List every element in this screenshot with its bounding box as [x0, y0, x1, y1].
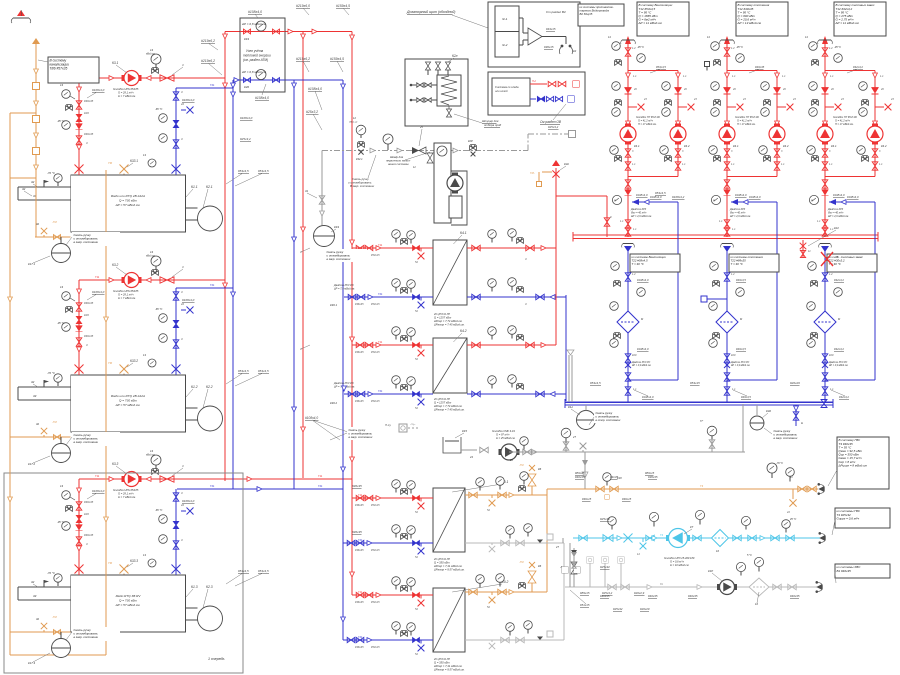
svg-text:-95 °С: -95 °С: [57, 520, 65, 524]
svg-text:Н = 7 мВод.см.: Н = 7 мВод.см.: [118, 495, 136, 499]
svg-text:Н = 17 мВод.см.: Н = 17 мВод.см.: [638, 123, 657, 126]
svg-text:ΔР = 2,9 мВод.см.: ΔР = 2,9 мВод.см.: [828, 364, 849, 367]
svg-text:3: 3: [86, 542, 88, 546]
svg-text:3: 3: [86, 141, 88, 145]
svg-text:#108х4,0: #108х4,0: [240, 116, 253, 120]
svg-text:в откр. состоянии: в откр. состоянии: [596, 418, 621, 422]
svg-text:1.2: 1.2: [731, 273, 735, 276]
svg-text:23: 23: [643, 98, 647, 101]
svg-text:32: 32: [36, 222, 40, 226]
svg-text:32: 32: [31, 180, 35, 184]
svg-text:#53х15: #53х15: [371, 302, 380, 306]
svg-text:20: 20: [732, 88, 736, 91]
svg-text:Т11: Т11: [95, 275, 100, 279]
svg-text:1.2: 1.2: [829, 273, 833, 276]
svg-text:#108х4,0: #108х4,0: [847, 195, 859, 199]
svg-text:1.2: 1.2: [632, 46, 636, 50]
svg-text:#40х35: #40х35: [790, 594, 800, 598]
svg-text:в закр. состоянии: в закр. состоянии: [74, 635, 99, 639]
svg-text:#20х29: #20х29: [640, 607, 650, 611]
svg-text:Т3: Т3: [700, 484, 704, 488]
svg-text:#43х15: #43х15: [546, 27, 556, 31]
svg-text:М: М: [614, 200, 616, 202]
svg-text:Gцирк = 0,6 м³/ч: Gцирк = 0,6 м³/ч: [837, 516, 860, 520]
svg-text:Riello или RTQ 2B 2A2A: Riello или RTQ 2B 2A2A: [111, 394, 145, 398]
svg-text:1 очередь: 1 очередь: [208, 657, 225, 661]
svg-text:отбора проб: отбора проб: [484, 123, 502, 127]
svg-text:К32: К32: [766, 409, 771, 413]
svg-text:ДанFoss РСУ-РС: ДанFoss РСУ-РС: [730, 362, 750, 364]
svg-text:#108х4,0: #108х4,0: [637, 347, 649, 351]
svg-text:#49х35: #49х35: [755, 65, 765, 69]
svg-text:2С-(РЗ-%-7Р: 2С-(РЗ-%-7Р: [433, 312, 450, 316]
svg-text:-95 °С: -95 °С: [57, 119, 65, 123]
svg-text:13: 13: [143, 353, 146, 357]
svg-text:52: 52: [415, 357, 418, 361]
svg-text:#53х15: #53х15: [371, 350, 380, 354]
svg-text:22: 22: [180, 102, 185, 106]
svg-text:14: 14: [707, 36, 710, 39]
svg-text:#108х4,0: #108х4,0: [92, 88, 105, 92]
svg-text:#108х4,0: #108х4,0: [182, 499, 195, 503]
svg-text:#53х15: #53х15: [371, 548, 380, 552]
svg-text:#25х3,2: #25х3,2: [240, 137, 251, 141]
svg-text:К1Р: К1Р: [708, 569, 713, 573]
svg-text:#32х3,2: #32х3,2: [834, 278, 844, 282]
svg-text:-95 °С: -95 °С: [736, 46, 743, 49]
svg-text:3: 3: [181, 491, 183, 495]
svg-text:#36х35: #36х35: [355, 350, 364, 354]
svg-text:нВод.см: нВод.см: [146, 53, 155, 56]
svg-text:3: 3: [181, 337, 183, 341]
svg-text:14: 14: [805, 36, 808, 39]
svg-text:Q = 730 кВт: Q = 730 кВт: [119, 399, 137, 403]
svg-text:Узел учёта: Узел учёта: [246, 49, 263, 53]
svg-text:23: 23: [792, 98, 796, 101]
svg-text:1.1: 1.1: [879, 163, 883, 166]
svg-text:#25х32: #25х32: [600, 565, 610, 569]
svg-text:М: М: [713, 200, 715, 202]
svg-text:К1.2: К1.2: [191, 385, 198, 389]
svg-text:33: 33: [33, 394, 37, 398]
svg-text:#53х4,5: #53х4,5: [238, 369, 249, 373]
svg-text:ТМ-: ТМ-: [530, 171, 535, 175]
svg-text:ΔР = 13 мВод.см: ΔР = 13 мВод.см: [737, 21, 761, 25]
svg-text:23: 23: [693, 98, 697, 101]
svg-text:К: К: [610, 215, 612, 219]
svg-text:#53х4,5: #53х4,5: [656, 65, 666, 69]
svg-text:3: 3: [879, 150, 881, 153]
svg-text:В1: В1: [660, 582, 664, 586]
svg-text:К19: К19: [334, 225, 339, 229]
svg-text:#25х32: #25х32: [613, 607, 623, 611]
svg-text:К2.3: К2.3: [206, 585, 213, 589]
svg-text:3: 3: [181, 290, 183, 294]
svg-text:1.1: 1.1: [731, 163, 735, 166]
svg-text:#36х35: #36х35: [648, 475, 658, 479]
svg-text:13: 13: [150, 250, 154, 254]
svg-text:К4.2: К4.2: [684, 144, 690, 148]
svg-text:К3л: К3л: [564, 162, 569, 166]
svg-text:ДанFoss РСУ-РС: ДанFoss РСУ-РС: [631, 362, 651, 364]
svg-text:20: 20: [633, 88, 637, 91]
svg-text:Ст раздел В4: Ст раздел В4: [546, 10, 566, 14]
svg-text:#36х35: #36х35: [355, 503, 364, 507]
svg-text:Т11: Т11: [358, 493, 363, 497]
svg-text:1.1: 1.1: [620, 220, 624, 223]
svg-text:Н = 17 мВод.см.: Н = 17 мВод.см.: [737, 123, 756, 126]
svg-text:#40х35: #40х35: [600, 594, 610, 598]
svg-text:#108х4,0: #108х4,0: [308, 87, 322, 91]
svg-text:-65 °С: -65 °С: [155, 307, 163, 311]
svg-text:в закр. состоянии: в закр. состоянии: [349, 435, 373, 439]
svg-text:Q = 350 кВт: Q = 350 кВт: [434, 561, 450, 565]
svg-text:#108х4,0: #108х4,0: [642, 395, 654, 399]
svg-text:#32х3,2: #32х3,2: [853, 65, 863, 69]
svg-text:в закр. состоянии: в закр. состоянии: [74, 440, 99, 444]
svg-text:#36х15: #36х15: [622, 497, 632, 501]
svg-text:16: 16: [755, 602, 758, 606]
svg-text:ΔР = 2,9 мВод.см.: ΔР = 2,9 мВод.см.: [729, 215, 751, 218]
svg-text:#51х15: #51х15: [580, 603, 590, 607]
svg-text:ΔРцирк = 8 мВод.см: ΔРцирк = 8 мВод.см: [838, 463, 867, 467]
svg-text:-95 °С: -95 °С: [834, 46, 841, 49]
svg-text:ТМ: ТМ: [108, 161, 113, 165]
svg-text:G = 97 м³/ч: G = 97 м³/ч: [496, 433, 510, 437]
svg-text:ТМ: ТМ: [108, 561, 113, 565]
svg-text:В2 б3ц/15: В2 б3ц/15: [580, 12, 593, 16]
svg-text:К1.3: К1.3: [191, 585, 198, 589]
svg-text:Т = 30 °С: Т = 30 °С: [632, 262, 645, 266]
svg-text:13: 13: [60, 484, 64, 488]
svg-text:-ТМ: -ТМ: [519, 561, 524, 564]
svg-text:Т21: Т21: [358, 538, 363, 542]
svg-text:К2.2: К2.2: [206, 385, 213, 389]
svg-text:2С-(РЗ-%-7Р: 2С-(РЗ-%-7Р: [433, 397, 450, 401]
svg-text:52: 52: [415, 406, 418, 410]
svg-text:#89х15: #89х15: [580, 591, 590, 595]
svg-text:К7: К7: [690, 525, 694, 529]
svg-text:1.1: 1.1: [781, 163, 785, 166]
svg-text:3: 3: [182, 63, 184, 67]
svg-text:Т21: Т21: [378, 292, 383, 296]
svg-text:33: 33: [33, 594, 37, 598]
svg-text:К26: К26: [84, 111, 89, 115]
svg-text:Т11: Т11: [378, 340, 383, 344]
svg-text:#40х35: #40х35: [648, 594, 658, 598]
svg-text:5 °С: 5 °С: [747, 554, 752, 557]
svg-text:#108х4,0: #108х4,0: [749, 195, 761, 199]
svg-text:К32.1: К32.1: [356, 157, 363, 161]
svg-text:К6: К6: [538, 467, 542, 471]
svg-text:К4.2: К4.2: [460, 329, 467, 333]
svg-text:13: 13: [150, 48, 154, 52]
svg-text:11: 11: [808, 250, 811, 253]
svg-text:#53х15: #53х15: [371, 645, 380, 649]
svg-text:1.1: 1.1: [880, 75, 884, 78]
svg-text:Т11: Т11: [378, 243, 383, 247]
svg-text:1.1: 1.1: [830, 75, 834, 78]
svg-text:52: 52: [487, 508, 490, 512]
svg-text:#108х4,0: #108х4,0: [182, 298, 195, 302]
svg-text:3: 3: [525, 257, 527, 261]
svg-text:Т11: Т11: [318, 474, 323, 478]
svg-text:Н = 7 мВод.см.: Н = 7 мВод.см.: [118, 296, 136, 300]
svg-text:#108х4,0: #108х4,0: [637, 278, 649, 282]
svg-text:32: 32: [31, 580, 35, 584]
svg-text:23: 23: [840, 98, 844, 101]
svg-text:тепловой энергии: тепловой энергии: [243, 54, 271, 58]
svg-text:Grundfos СМF 3-19: Grundfos СМF 3-19: [492, 429, 515, 433]
svg-text:#53х15: #53х15: [690, 381, 700, 385]
svg-text:#108х4,0: #108х4,0: [650, 195, 662, 199]
svg-text:В закр. состоянии: В закр. состоянии: [350, 184, 375, 188]
svg-text:К33.3: К33.3: [130, 559, 138, 563]
svg-text:или иглой: или иглой: [495, 89, 508, 93]
svg-text:26: 26: [509, 458, 513, 462]
svg-text:ДанFoss РСУ-РС: ДанFoss РСУ-РС: [828, 362, 848, 364]
svg-text:3: 3: [86, 343, 88, 347]
svg-text:#36х35: #36х35: [355, 600, 364, 604]
svg-text:К30.1: К30.1: [330, 303, 338, 307]
svg-text:#53х4,5: #53х4,5: [258, 569, 269, 573]
svg-text:М: М: [838, 317, 841, 321]
svg-text:(см. раздел АТМ): (см. раздел АТМ): [243, 58, 268, 62]
svg-text:П-1у: П-1у: [385, 423, 392, 427]
svg-text:1.2: 1.2: [632, 273, 636, 276]
svg-text:К17.3: К17.3: [28, 661, 36, 665]
svg-text:#36х35: #36х35: [84, 334, 94, 338]
svg-text:52: 52: [415, 652, 418, 656]
svg-text:#108х4,0: #108х4,0: [92, 489, 105, 493]
svg-text:52: 52: [415, 260, 418, 264]
svg-text:К4.1: К4.1: [831, 144, 837, 148]
svg-text:31: 31: [305, 189, 309, 193]
svg-text:ΔP = 0,8 мВод.см: ΔP = 0,8 мВод.см: [241, 70, 266, 74]
svg-text:ΔРвтор = 9,57 мВод.см.: ΔРвтор = 9,57 мВод.см.: [433, 568, 465, 572]
svg-text:#40х35: #40х35: [575, 475, 585, 479]
svg-text:К15: К15: [462, 429, 467, 433]
svg-text:Н: Н: [801, 421, 804, 425]
svg-text:К2Р: К2Р: [468, 139, 473, 143]
svg-text:27: 27: [555, 545, 559, 549]
svg-text:Grundfos UРЗ 25-400 180: Grundfos UРЗ 25-400 180: [664, 556, 695, 560]
svg-text:К29: К29: [829, 353, 834, 357]
svg-text:3: 3: [781, 150, 783, 153]
svg-text:32: 32: [36, 617, 40, 621]
svg-text:ΔР = 2,9 мВод.см.: ΔР = 2,9 мВод.см.: [730, 364, 751, 367]
svg-text:45 °С: 45 °С: [790, 518, 796, 521]
svg-text:#36х35: #36х35: [84, 99, 94, 103]
svg-text:#159х4,5: #159х4,5: [330, 57, 344, 61]
svg-text:-ТМ: -ТМ: [519, 464, 524, 467]
svg-text:#25х32: #25х32: [600, 517, 610, 521]
svg-text:ΔР = 2,9 мВод.см.: ΔР = 2,9 мВод.см.: [630, 215, 652, 218]
svg-text:Grundfos UРS 65/185: Grundfos UРS 65/185: [113, 289, 139, 293]
svg-text:#9л35: #9л35: [610, 475, 618, 479]
svg-text:G = 0,6 м³/ч: G = 0,6 м³/ч: [670, 560, 685, 564]
svg-text:К3.2: К3.2: [112, 263, 119, 267]
svg-text:1.1: 1.1: [683, 75, 687, 78]
svg-text:-ТМ: -ТМ: [52, 220, 57, 224]
svg-text:#53х4,5: #53х4,5: [590, 381, 601, 385]
svg-text:К20: К20: [244, 85, 249, 89]
svg-text:14: 14: [608, 36, 611, 39]
svg-text:13: 13: [143, 153, 146, 157]
svg-text:нения системы: нения системы: [388, 162, 409, 166]
svg-text:Т21: Т21: [210, 83, 215, 87]
svg-text:См раздел ОВ: См раздел ОВ: [540, 120, 562, 124]
svg-text:13: 13: [150, 449, 154, 453]
svg-text:К2: К2: [573, 49, 577, 53]
svg-text:Дозаторный щит (обходной): Дозаторный щит (обходной): [406, 10, 455, 14]
svg-text:#53х4,5: #53х4,5: [238, 569, 249, 573]
svg-text:13: 13: [60, 285, 64, 289]
svg-text:Н = 10 мВод.см: Н = 10 мВод.см: [670, 563, 689, 567]
svg-text:32: 32: [31, 380, 35, 384]
svg-text:#36х35: #36х35: [355, 645, 364, 649]
svg-text:-95 °С: -95 °С: [57, 321, 65, 325]
svg-text:ТМ: ТМ: [108, 361, 113, 365]
svg-text:Riello RTQ 3B RV: Riello RTQ 3B RV: [116, 594, 142, 598]
svg-text:#36х15: #36х15: [544, 45, 554, 49]
svg-text:3: 3: [182, 464, 184, 468]
svg-text:3: 3: [829, 150, 831, 153]
svg-text:нВод.см: нВод.см: [349, 121, 358, 124]
svg-text:3: 3: [181, 538, 183, 542]
svg-text:20: 20: [782, 88, 786, 91]
svg-text:52: 52: [415, 555, 418, 559]
svg-text:Riello или RTQ 2B 2A2A: Riello или RTQ 2B 2A2A: [111, 194, 145, 198]
svg-text:К3.1: К3.1: [112, 61, 119, 65]
svg-text:Q = 730 кВт: Q = 730 кВт: [119, 199, 137, 203]
svg-text:К29: К29: [632, 353, 637, 357]
svg-text:22: 22: [180, 503, 185, 507]
svg-text:К29: К29: [731, 353, 736, 357]
svg-text:нВод.см: нВод.см: [146, 255, 155, 258]
svg-text:#20х29: #20х29: [790, 381, 800, 385]
svg-text:27: 27: [572, 435, 576, 439]
svg-text:23: 23: [890, 98, 894, 101]
svg-text:#36х35: #36х35: [84, 132, 94, 136]
svg-text:#53х15: #53х15: [371, 399, 380, 403]
svg-text:Т21: Т21: [358, 635, 363, 639]
svg-text:#53х4,5: #53х4,5: [238, 169, 249, 173]
svg-text:К6: К6: [538, 564, 542, 568]
svg-text:#53х4,5: #53х4,5: [258, 169, 269, 173]
svg-text:#53х15: #53х15: [371, 253, 380, 257]
svg-text:ΔP = 0,8 мВод.см: ΔP = 0,8 мВод.см: [241, 22, 266, 26]
svg-text:ΔP = 57 мВод.см.: ΔP = 57 мВод.см.: [115, 203, 141, 207]
svg-text:ТВ6 #57х35: ТВ6 #57х35: [50, 66, 68, 70]
svg-text:Т11: Т11: [358, 590, 363, 594]
svg-text:Т11: Т11: [95, 474, 100, 478]
svg-text:1.1: 1.1: [817, 220, 821, 223]
svg-text:#36х35: #36х35: [84, 301, 94, 305]
svg-text:ΔР = 11 мВод.см: ΔР = 11 мВод.см: [638, 21, 662, 25]
svg-text:-65 °С: -65 °С: [155, 107, 163, 111]
svg-text:1.1: 1.1: [632, 163, 636, 166]
svg-text:#108х4,0: #108х4,0: [305, 416, 318, 420]
svg-text:#36х35: #36х35: [355, 548, 364, 552]
svg-text:52: 52: [415, 510, 418, 514]
svg-text:#36х35: #36х35: [352, 530, 362, 534]
svg-text:#53х4,5: #53х4,5: [258, 369, 269, 373]
svg-text:К4.1: К4.1: [634, 144, 640, 148]
svg-text:#108х4,0: #108х4,0: [182, 98, 195, 102]
svg-text:1.2: 1.2: [731, 46, 735, 50]
svg-text:К4.1: К4.1: [733, 144, 739, 148]
svg-text:М: М: [740, 317, 743, 321]
svg-text:G = 29,1 м³/ч: G = 29,1 м³/ч: [118, 91, 134, 95]
svg-text:#36х35: #36х35: [84, 533, 94, 537]
svg-text:К3.3: К3.3: [112, 462, 119, 466]
svg-text:#36х35: #36х35: [355, 302, 364, 306]
svg-text:Q = 350 кВт: Q = 350 кВт: [434, 661, 450, 665]
svg-text:3: 3: [181, 137, 183, 141]
svg-text:1.2: 1.2: [829, 46, 833, 50]
svg-text:ΔР = 2,9 мВод.см.: ΔР = 2,9 мВод.см.: [631, 364, 652, 367]
svg-text:2С-(РЗ-%-7Р: 2С-(РЗ-%-7Р: [433, 657, 450, 661]
svg-text:ΔP = 57 мВод.см.: ΔP = 57 мВод.см.: [115, 603, 141, 607]
svg-text:К26: К26: [84, 512, 89, 516]
svg-text:ΔР = 2,9 мВод.см.: ΔР = 2,9 мВод.см.: [827, 215, 849, 218]
svg-text:#36х35: #36х35: [355, 399, 364, 403]
svg-text:#108х4,0: #108х4,0: [248, 10, 262, 14]
svg-text:G = 29,1 м³/ч: G = 29,1 м³/ч: [118, 492, 134, 496]
svg-text:#108х4,0: #108х4,0: [92, 290, 105, 294]
svg-text:К33.1: К33.1: [130, 159, 138, 163]
svg-text:-ТМ: -ТМ: [52, 420, 57, 424]
svg-text:Т21: Т21: [378, 389, 383, 393]
svg-text:К4.1: К4.1: [460, 231, 467, 235]
svg-text:52: 52: [415, 607, 418, 611]
svg-text:ΔРвтор = 7,45 мВод.см.: ΔРвтор = 7,45 мВод.см.: [433, 323, 465, 327]
svg-text:-65 °С: -65 °С: [155, 508, 163, 512]
svg-text:20: 20: [880, 88, 884, 91]
svg-text:#25х3,2: #25х3,2: [548, 125, 559, 129]
svg-text:ΔP = 57 мВод.см.: ΔP = 57 мВод.см.: [115, 403, 141, 407]
svg-text:Q = 730 кВт: Q = 730 кВт: [119, 599, 137, 603]
svg-text:#53х15: #53х15: [371, 600, 380, 604]
svg-text:К30.2: К30.2: [330, 401, 338, 405]
svg-text:-70 °С: -70 °С: [776, 462, 783, 465]
svg-text:#108х4,0: #108х4,0: [735, 193, 747, 197]
svg-text:13: 13: [143, 553, 146, 557]
svg-text:К22: К22: [834, 226, 839, 230]
svg-text:К1л: К1л: [568, 405, 573, 409]
svg-text:ΔРвтор = 9,57 мВод.см.: ΔРвтор = 9,57 мВод.см.: [433, 668, 465, 672]
svg-text:М: М: [641, 317, 644, 321]
svg-text:Ж-2: Ж-2: [501, 43, 508, 47]
svg-text:К2.1: К2.1: [206, 185, 213, 189]
svg-text:20: 20: [683, 88, 687, 91]
svg-text:13: 13: [60, 83, 64, 87]
svg-text:Т21: Т21: [210, 283, 215, 287]
svg-text:#108х4,0: #108х4,0: [833, 193, 845, 197]
svg-text:ΔРвтор = 7,45 мВод.см.: ΔРвтор = 7,45 мВод.см.: [433, 408, 465, 412]
svg-text:G = 29,1 м³/ч: G = 29,1 м³/ч: [118, 293, 134, 297]
svg-text:#108х4,0: #108х4,0: [255, 96, 269, 100]
svg-text:#25х3,2: #25х3,2: [306, 110, 318, 114]
svg-text:12: 12: [353, 116, 356, 120]
svg-text:Н = 25 мВод.см.: Н = 25 мВод.см.: [496, 436, 516, 440]
svg-text:16: 16: [716, 549, 719, 553]
svg-text:32: 32: [36, 422, 40, 426]
svg-text:1.1: 1.1: [732, 75, 736, 78]
svg-text:Система со следа: Система со следа: [495, 85, 519, 89]
svg-text:К4.2: К4.2: [783, 144, 789, 148]
